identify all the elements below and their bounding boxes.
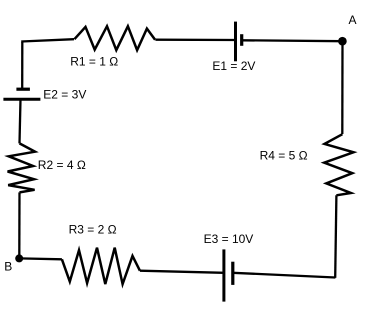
svg-text:E2 = 3V: E2 = 3V xyxy=(43,88,86,102)
svg-text:E1 = 2V: E1 = 2V xyxy=(212,59,255,73)
svg-text:R1 = 1 Ω: R1 = 1 Ω xyxy=(70,55,118,69)
svg-text:R4 = 5 Ω: R4 = 5 Ω xyxy=(260,149,308,163)
svg-text:A: A xyxy=(349,13,357,27)
svg-text:E3 = 10V: E3 = 10V xyxy=(204,232,254,246)
svg-text:B: B xyxy=(4,259,12,273)
svg-text:R3 = 2 Ω: R3 = 2 Ω xyxy=(69,223,117,237)
svg-text:R2 = 4 Ω: R2 = 4 Ω xyxy=(38,158,86,172)
